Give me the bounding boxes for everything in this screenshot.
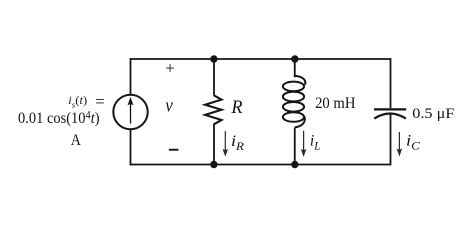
wire resistor top: [213, 59, 215, 96]
label v: [165, 94, 172, 115]
label 20 mH: [315, 94, 355, 112]
svg-text:iR: iR: [231, 132, 245, 153]
node dot bottom left junction: [210, 161, 217, 168]
current source IS: [113, 95, 147, 129]
svg-text:=: =: [95, 92, 104, 111]
label iL: [310, 132, 321, 152]
svg-text:20 mH: 20 mH: [315, 94, 355, 112]
svg-text:A: A: [71, 132, 81, 149]
svg-text:v: v: [165, 94, 172, 115]
label iR: [231, 132, 245, 153]
svg-text:is(t): is(t): [68, 94, 87, 110]
wire right upper: [390, 58, 392, 108]
wire left upper: [130, 58, 132, 94]
inductor L: [283, 76, 305, 128]
arrow iC: [397, 132, 403, 157]
resistor R: [205, 95, 221, 124]
svg-text:iC: iC: [406, 132, 421, 153]
node dot top right junction: [291, 55, 298, 62]
label source current expression: [18, 92, 105, 149]
capacitor C: [374, 109, 406, 118]
arrow iL: [301, 131, 307, 157]
svg-text:+: +: [165, 58, 175, 77]
wire top: [130, 58, 391, 60]
node dot top left junction: [210, 55, 217, 62]
label 0.5 uF: [412, 105, 454, 121]
wire resistor bottom: [213, 124, 215, 165]
label plus: [165, 58, 175, 77]
label iC: [406, 132, 421, 153]
wire right lower: [390, 113, 392, 165]
node dot bottom right junction: [291, 161, 298, 168]
wire bottom: [130, 164, 391, 166]
svg-text:iL: iL: [310, 132, 321, 152]
svg-text:R: R: [230, 97, 243, 118]
wire left lower: [130, 130, 132, 166]
wire inductor bottom: [294, 128, 296, 165]
wire inductor top: [294, 59, 296, 77]
svg-text:0.01 cos(104t): 0.01 cos(104t): [18, 109, 100, 127]
arrow iR: [223, 131, 229, 157]
label R: [230, 97, 243, 118]
svg-text:0.5 μF: 0.5 μF: [412, 105, 454, 121]
label minus: [169, 149, 179, 151]
